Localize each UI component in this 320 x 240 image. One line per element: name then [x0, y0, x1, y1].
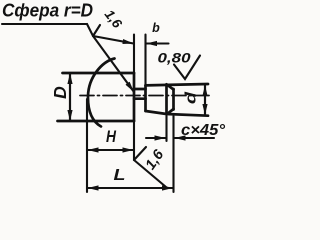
head top line with D extension [63, 72, 135, 75]
cylinder bottom line with d extension [146, 111, 209, 116]
extension line b left [133, 35, 135, 74]
chamfer bevel bottom [167, 109, 174, 114]
svg-text:L: L [114, 167, 126, 184]
head bottom line with D extension [58, 120, 135, 123]
dimension line H [88, 149, 131, 151]
cylinder left face [144, 86, 147, 112]
cylinder top line with d extension [146, 84, 209, 85]
dimension c: right outside arrow [175, 137, 215, 139]
svg-text:1,6: 1,6 [143, 146, 168, 172]
extension line b right [144, 35, 146, 86]
roughness check 0,80 [174, 56, 200, 80]
leader underline of Сфера r=D [2, 23, 87, 25]
extension line H right [133, 121, 135, 160]
chamfer bevel top [167, 84, 174, 89]
dimension line D [69, 73, 71, 121]
roughness mark 1,6 on sphere: short leg [93, 25, 100, 36]
extension line H/L left [86, 99, 88, 192]
dimension b: left outside arrow [93, 36, 134, 44]
neck groove bottom [134, 97, 146, 100]
roughness mark 1,6 (neck groove): long leg [134, 160, 166, 187]
chamfer edge line [165, 84, 168, 114]
svg-text:1,6: 1,6 [102, 7, 126, 31]
roughness mark 1,6 (neck groove): short leg [134, 147, 146, 160]
dimension line d [204, 85, 206, 115]
svg-text:b: b [152, 21, 160, 35]
svg-text:d: d [183, 91, 200, 104]
centerline [80, 95, 211, 97]
svg-text:H: H [106, 128, 117, 146]
extension line chamfer [165, 116, 167, 141]
dimension c: left outside arrow [146, 137, 166, 139]
svg-text:Сфера r=D: Сфера r=D [2, 1, 93, 21]
leader line to sphere [87, 24, 134, 92]
sphere arc [88, 59, 115, 127]
end face [172, 89, 175, 110]
svg-text:0,80: 0,80 [158, 50, 191, 66]
dimension line L [88, 187, 171, 189]
head right face [133, 73, 136, 121]
neck groove top [134, 88, 146, 91]
dimension b: right outside arrow [146, 42, 169, 44]
extension line L right [172, 116, 174, 192]
svg-text:c×45°: c×45° [181, 122, 226, 139]
svg-text:D: D [50, 86, 70, 99]
